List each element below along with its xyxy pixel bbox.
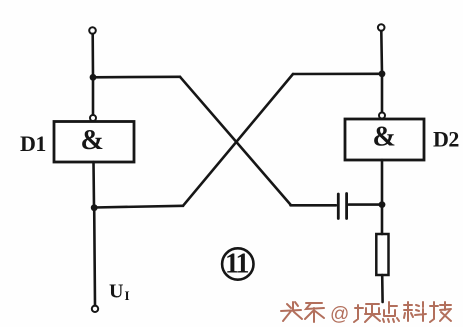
wire below resistor [381, 275, 384, 302]
inverter bubble D2 [379, 113, 385, 119]
wire capacitor horizontal left [291, 204, 337, 207]
svg-text:&: & [373, 122, 396, 153]
wire capacitor horizontal right [349, 203, 382, 206]
resistor R body [376, 234, 388, 275]
wire top-left vertical [91, 34, 94, 77]
wire D1 output down [92, 162, 95, 208]
char tiao [305, 303, 324, 322]
svg-text:I: I [125, 288, 130, 303]
wire top-right vertical [380, 31, 383, 74]
op-amp gate D1 box [54, 122, 134, 163]
wire diagonal left-top to right-bottom [180, 77, 291, 205]
svg-text:D1: D1 [20, 131, 46, 156]
char tan [354, 304, 380, 322]
node junction left-bottom [91, 204, 98, 211]
wire left horizontal to cross [93, 76, 180, 79]
wire bottom-left horizontal [94, 206, 183, 208]
char tou [281, 302, 302, 321]
wire vertical into D2 input [381, 74, 384, 112]
wire right horizontal to cross [293, 73, 382, 76]
terminal bottom-left [92, 306, 98, 312]
node junction right-top [379, 70, 386, 77]
wire bottom-left vertical [93, 208, 96, 306]
watermark toutiao [281, 302, 451, 322]
node junction right-bottom [379, 201, 386, 208]
wire diagonal right-top to left-bottom [183, 74, 293, 206]
wire vertical into D1 input [92, 77, 95, 114]
inverter bubble D1 [90, 115, 96, 121]
char ji [430, 302, 451, 322]
svg-text:U: U [109, 281, 123, 303]
capacitor C plate right [345, 194, 348, 219]
circle of numbered node 11 [222, 248, 253, 279]
svg-text:11: 11 [225, 249, 248, 280]
terminal top-right [378, 24, 385, 31]
svg-text:&: & [81, 125, 104, 156]
node junction left-top [90, 74, 97, 81]
wire D2 output down [381, 160, 384, 234]
terminal top-left [89, 27, 96, 34]
op-amp gate D2 box [345, 119, 424, 160]
svg-text:@: @ [330, 304, 349, 325]
svg-text:D2: D2 [433, 127, 459, 152]
char dian [383, 302, 399, 322]
capacitor C plate left [337, 194, 340, 219]
char ke [404, 302, 426, 321]
